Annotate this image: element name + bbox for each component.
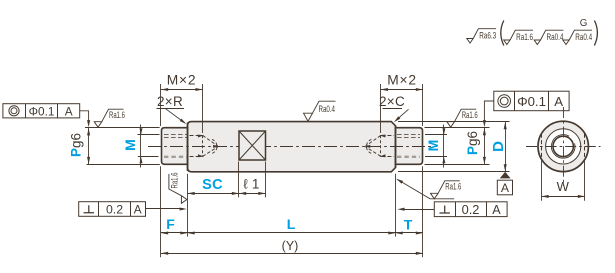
svg-text:Ra1.6: Ra1.6 [516,32,533,42]
Pg6 dim arrow bottom right [483,157,486,164]
svg-text:W: W [557,179,570,194]
end view vertical centerline [563,107,565,186]
stub bottom ext line left [87,164,160,166]
stub bottom ext line right [425,164,490,166]
svg-text:Ra1.6: Ra1.6 [170,173,180,189]
right tapped hole hidden line upper b [397,137,420,139]
body bottom ext line right [398,171,510,173]
svg-text:Ra1.6: Ra1.6 [445,182,461,192]
end view thread major arc [551,135,575,159]
left perp symbol [84,205,95,213]
body right ext line bottom [395,174,397,237]
Mx2 right ext line a [380,84,382,133]
svg-text:ℓ 1: ℓ 1 [243,177,259,192]
shaft body [188,122,396,172]
left cone arrow apex [213,145,219,148]
svg-text:Pg6: Pg6 [69,133,84,157]
right perp symbol [439,205,450,213]
Pg6 dim line right [484,128,486,165]
right tapped hole hidden line upper a [397,134,420,136]
datum A box [497,180,512,195]
right thread depth hidden line [380,135,382,156]
svg-text:Pg6: Pg6 [465,131,480,155]
right concentricity symbol [498,95,511,108]
M dim line left [140,125,142,168]
Pg6 label right [465,131,480,155]
right perp frame divider 1 [455,202,457,217]
SC dim line [188,193,240,195]
right cone arc [366,139,371,153]
2xC leader arrow [394,116,400,122]
l1 arrow right [258,192,265,195]
W arrow left [541,195,548,198]
M dim arrow top right [442,128,445,135]
left hole hidden in body lower [190,156,203,158]
stub top ext line right [425,127,490,129]
wrench flat diagonal 2 [239,131,266,160]
M dim arrow bottom right [442,157,445,164]
svg-text:2×R: 2×R [157,94,183,109]
2xC underline [383,108,403,110]
svg-text:D: D [490,141,507,152]
W ext line right [584,161,586,201]
L dim line [188,232,396,234]
svg-text:A: A [65,104,73,118]
end view stub circle (P) [546,129,581,164]
svg-text:G: G [580,18,588,29]
Mx2 right arrow a [381,88,388,91]
svg-text:SC: SC [202,177,223,193]
svg-text:0.2: 0.2 [106,203,123,217]
Ra0.4 G note symbol [563,30,592,44]
Ra1.6 surface symbol (left stub) [94,109,125,127]
SC arrow right [232,192,239,195]
left end ext line bottom [160,166,162,257]
F arrow left [161,231,168,234]
svg-text:A: A [501,181,510,195]
l1 dim line [239,193,266,195]
svg-text:Φ0.1: Φ0.1 [517,94,546,109]
Ra1.6 leader arrow (right shoulder) [396,179,403,184]
hole bottom ext line left [138,156,159,158]
stub top ext line left [85,127,160,129]
right perp leader [401,209,434,211]
left cone arrow upper [198,135,204,138]
svg-text:A: A [134,203,142,217]
right perp frame divider 2 [486,202,488,217]
svg-text:A: A [554,94,563,109]
Mx2 left ext line b [202,84,204,133]
square right ext line [265,162,267,198]
svg-text:F: F [166,216,175,232]
right cone arrow lower [379,154,385,157]
svg-text:Ra1.6: Ra1.6 [462,110,478,120]
shaft centerline [148,146,437,148]
Ra1.6 note symbol [504,30,533,44]
left feature frame box [3,104,80,118]
svg-text:(Y): (Y) [282,239,299,253]
wrench flat square SC section [239,131,266,160]
wrench flat diagonal 1 [239,131,266,160]
Ra1.6 leader (right shoulder) [397,179,454,198]
T dim line [396,232,424,234]
l1 arrow left [239,192,246,195]
right feature frame box [494,91,569,111]
right perp leader arrow [397,208,404,211]
left thread depth hidden line [202,135,204,156]
D dim arrow top [504,122,507,129]
left frame leader [80,111,89,123]
body top ext line right [398,121,510,123]
svg-text:0.2: 0.2 [462,202,480,217]
left hole hidden in body upper [190,135,203,137]
W arrow right [578,195,585,198]
W ext line left [541,161,543,201]
svg-text:Ra0.4: Ra0.4 [319,103,336,114]
F dim line [161,232,188,234]
hole top ext line right [425,134,447,136]
right frame leader [484,101,493,123]
end view tapped hole circle [553,136,573,156]
svg-text:M×2: M×2 [387,73,417,88]
2xR underline [157,108,185,110]
Mx2 left dim line [161,89,203,91]
2xR leader [165,108,185,123]
Ra0.4 note symbol [534,30,563,44]
general Ra6.3 symbol [467,29,496,43]
Mx2 right dim line [381,89,423,91]
M dim line right [443,125,445,168]
Pg6 label left [69,133,84,157]
left perp frame divider 2 [130,202,132,217]
end view flat chord right (hidden) [584,134,586,160]
2xC leader [396,109,409,120]
svg-text:T: T [404,217,413,233]
right hole hidden in body lower [381,156,394,158]
Y dim line [161,253,423,255]
left cone arrow lower [198,154,204,157]
end view flat chord left (hidden) [541,134,543,160]
Ra1.6 surface symbol (left shoulder, rotated) [169,173,187,204]
L arrow left [188,231,195,234]
2xR leader arrow [180,119,187,125]
left perp frame box [79,202,146,217]
svg-text:2×C: 2×C [379,94,405,109]
Mx2 left ext line a [160,84,162,126]
hole top ext line left [138,134,160,136]
open paren [501,21,504,46]
left drill cone upper [203,136,218,147]
left tapped hole hidden line upper b [164,137,187,139]
Pg6 dim arrow bottom left [87,157,90,164]
left cone arc [212,139,217,153]
end view horizontal centerline [526,146,601,148]
T arrow left [396,231,403,234]
right tapped hole hidden line lower (gray) [397,156,420,158]
T arrow right [416,231,423,234]
body left ext line bottom [187,174,189,237]
svg-text:M: M [425,140,441,152]
hole bottom ext line right [425,156,447,158]
right hole hidden in body upper [381,135,394,137]
svg-text:M×2: M×2 [167,73,197,88]
left tapped hole hidden line upper a [164,134,187,136]
Mx2 left arrow a [161,88,168,91]
right drill cone lower [366,147,381,157]
left frame leader arrow [87,120,90,127]
Ra1.6 surface symbol (right shoulder) [431,181,462,199]
svg-text:Ra0.4: Ra0.4 [547,32,564,42]
close paren [594,21,597,46]
left feature frame divider 1 [25,104,27,118]
left concentricity symbol [9,106,19,116]
svg-text:M: M [122,139,138,151]
Pg6 dim line left [88,128,90,164]
datum triangle [500,172,511,179]
right feature frame divider 1 [514,91,516,111]
Ra1.6 surface symbol (right stub) [447,109,478,127]
right cone arrow apex [364,145,370,148]
Mx2 right arrow b [416,88,423,91]
L arrow right [388,231,395,234]
left shoulder face [187,122,189,171]
svg-text:Ra1.6: Ra1.6 [109,110,125,120]
right shoulder face [395,125,397,168]
svg-text:Φ0.1: Φ0.1 [29,104,55,118]
W dim line [541,196,585,198]
right drill cone upper [366,136,381,147]
Mx2 right ext line b [422,84,424,126]
Ra0.4 surface symbol (body top) [304,101,336,121]
M dim arrow top left [140,128,143,135]
svg-text:A: A [492,203,501,217]
Y arrow right [416,252,423,255]
right end ext line bottom [422,166,424,257]
left tapped hole hidden line lower (gray) [164,156,187,158]
Pg6 dim arrow top left [87,128,90,135]
square left ext line [238,162,240,198]
M dim arrow bottom left [140,157,143,164]
SC arrow left [188,192,195,195]
right frame leader arrow [483,120,486,127]
left feature frame divider 2 [57,104,59,118]
right stub (threaded end) [396,128,423,165]
F arrow right [180,231,187,234]
left perp frame divider 1 [98,202,100,217]
right perp frame box [434,202,507,217]
right feature frame divider 2 [548,91,550,111]
D dim line right [505,122,507,172]
end view outer circle (body dia D) [538,121,588,171]
left perp leader [146,208,184,210]
svg-text:L: L [287,216,296,232]
right cone arrow upper [379,135,385,138]
left stub (threaded end) [162,128,188,165]
Y arrow left [161,252,168,255]
D dim arrow bottom [504,164,507,171]
svg-text:Ra0.4: Ra0.4 [575,32,592,42]
Pg6 dim arrow top right [483,128,486,135]
svg-text:Ra6.3: Ra6.3 [479,30,496,40]
left drill cone lower [203,147,218,157]
left perp leader arrow [180,207,187,210]
Mx2 left arrow b [196,88,203,91]
